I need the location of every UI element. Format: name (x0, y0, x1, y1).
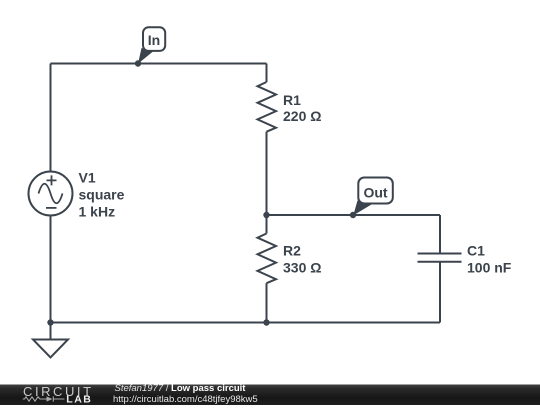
ground (33, 340, 68, 358)
svg-text:220 Ω: 220 Ω (283, 108, 321, 124)
node R2 bottom junction (263, 319, 269, 325)
svg-text:Stefan1977 / Low pass circuit: Stefan1977 / Low pass circuit (115, 383, 247, 394)
footer bar (0, 385, 540, 406)
logo resistor-diode squiggle (23, 396, 65, 401)
node ground junction (47, 319, 53, 325)
wire R2 top lead (266, 215, 268, 234)
wire C1 top lead (439, 215, 441, 253)
svg-text:100 nF: 100 nF (467, 260, 512, 276)
wire top horizontal In net (51, 63, 267, 65)
wire R2 bottom lead (266, 283, 268, 322)
svg-text:square: square (79, 187, 125, 203)
svg-text:LAB: LAB (66, 394, 92, 406)
svg-text:V1: V1 (79, 170, 96, 186)
wire C1 bottom lead (439, 262, 441, 323)
wire R1 bottom lead (266, 132, 268, 215)
wire Out horizontal net (267, 214, 441, 216)
flag In (138, 27, 165, 64)
svg-text:C1: C1 (467, 243, 485, 259)
svg-text:http://circuitlab.com/c48tjfey: http://circuitlab.com/c48tjfey98kw5 (113, 394, 258, 405)
resistor R2 (258, 234, 277, 284)
wire R1 top lead (266, 64, 268, 83)
node R1 R2 Out junction (263, 212, 269, 218)
voltage source V1 (29, 172, 73, 216)
svg-text:1 kHz: 1 kHz (79, 204, 116, 220)
node In junction dot (135, 60, 141, 66)
svg-text:In: In (148, 32, 160, 48)
svg-text:R2: R2 (283, 243, 301, 259)
wire V1 bottom lead (50, 216, 52, 323)
wire V1 top to In node (50, 64, 52, 172)
svg-text:330 Ω: 330 Ω (283, 260, 321, 276)
svg-text:Out: Out (363, 184, 387, 200)
capacitor C1 (418, 254, 462, 262)
node Out flag dot (350, 212, 356, 218)
resistor R1 (258, 82, 277, 132)
flag Out (353, 178, 393, 216)
wire ground stem (50, 323, 52, 340)
svg-text:R1: R1 (283, 92, 301, 108)
wire bottom ground net (51, 322, 441, 324)
